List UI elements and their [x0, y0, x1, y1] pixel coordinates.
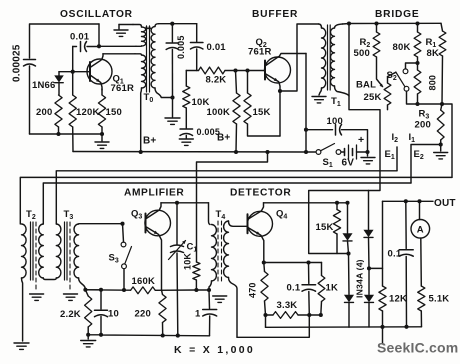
transformer T1 secondary [335, 24, 343, 28]
transformer T2 secondary [39, 224, 44, 278]
node diode D1 top [345, 201, 349, 205]
transistor Q2 761R [265, 57, 291, 83]
wire R2 to BAL wiper [377, 57, 383, 87]
node 470 bottom [263, 313, 267, 317]
switch S3 [123, 224, 124, 242]
svg-text:IN34A (4): IN34A (4) [355, 259, 365, 298]
diode D1 lower 1N34A [348, 254, 351, 295]
diode D2 upper 1N34A [368, 191, 370, 230]
transformer T1 primary [319, 24, 322, 28]
ground T4 core [213, 295, 227, 297]
node bias-15K [245, 68, 249, 72]
svg-text:1K: 1K [326, 283, 339, 294]
node emitter-cap [306, 260, 310, 264]
svg-text:200: 200 [415, 120, 431, 131]
wire detector bottom rail [266, 326, 422, 329]
ground battery [367, 152, 369, 156]
capacitor 0.01 coupling [196, 24, 198, 42]
resistor 470 [263, 263, 266, 272]
node battery ground [365, 150, 369, 154]
wire emitter to T1 primary top [280, 24, 319, 91]
resistor 10K amplifier [193, 262, 200, 280]
svg-text:5.1K: 5.1K [429, 294, 450, 305]
node bias-100K [233, 68, 237, 72]
svg-text:DETECTOR: DETECTOR [230, 188, 291, 199]
svg-text:1N66: 1N66 [32, 80, 56, 91]
potentiometer BAL 25K [384, 83, 391, 105]
node cap10 top [99, 288, 103, 292]
node cap-collector [97, 44, 101, 48]
capacitor 0.1 output [405, 201, 407, 248]
node T4 primary bottom [207, 288, 211, 292]
meter A [419, 201, 421, 219]
capacitor 0.005 bypass [180, 128, 193, 130]
wire to T4 primary [209, 203, 211, 225]
transistor Q1 761R [87, 59, 112, 84]
svg-text:0.1: 0.1 [287, 283, 301, 294]
resistor 10K oscillator [185, 71, 187, 87]
svg-text:10K: 10K [183, 253, 193, 270]
wire Q4 collector [264, 202, 348, 204]
diode 1N66 [58, 72, 60, 76]
ground T1 primary [312, 96, 326, 98]
svg-text:100K: 100K [207, 107, 231, 118]
node 0.005 top [170, 22, 174, 26]
svg-text:BUFFER: BUFFER [252, 9, 298, 20]
resistor R2 500 [376, 24, 378, 33]
capacitor 1 [208, 290, 211, 309]
svg-text:3.3K: 3.3K [277, 300, 298, 311]
battery 6V [341, 151, 345, 153]
diode D2 lower 1N34A [368, 268, 370, 294]
wire to long return [442, 104, 452, 177]
wire amp supply [197, 152, 268, 262]
svg-text:470: 470 [248, 282, 258, 298]
node B+ tap [139, 150, 143, 154]
transformer T4 secondary [224, 221, 229, 278]
capacitor 10 [85, 289, 101, 291]
svg-text:BRIDGE: BRIDGE [375, 9, 419, 20]
node cap3 bottom [404, 325, 408, 329]
transformer T4 core [217, 221, 219, 284]
transformer T0 secondary winding [155, 24, 159, 27]
node Q2 emitter [278, 89, 282, 93]
node S3 bottom [122, 288, 126, 292]
capacitor 0.00025 [24, 59, 36, 61]
svg-text:OSCILLATOR: OSCILLATOR [60, 9, 133, 20]
terminal E1 [396, 147, 398, 171]
svg-text:OUT: OUT [434, 198, 456, 209]
resistor 80K [417, 24, 419, 33]
node bridge mid [440, 102, 444, 106]
stub below 12K [382, 327, 384, 344]
resistor 800 [417, 63, 419, 70]
ground under 150 [101, 134, 103, 141]
resistor R1 8K [441, 23, 443, 31]
transistor Q4 [248, 211, 273, 236]
node C1 bottom [176, 334, 180, 338]
wire Q2 collector down to S1 line [305, 54, 307, 153]
switch S1 [316, 150, 321, 155]
node C1 tap [175, 201, 179, 205]
svg-text:160K: 160K [132, 276, 156, 287]
node 10K bottom [194, 288, 198, 292]
svg-text:2.2K: 2.2K [60, 309, 81, 320]
node T0 secondary bottom [170, 95, 174, 99]
transformer T2 primary [22, 224, 27, 278]
svg-text:8.2K: 8.2K [206, 75, 227, 86]
resistor 2.2K [85, 290, 88, 296]
resistor 160K [85, 289, 130, 291]
node 12K bottom [380, 325, 384, 329]
node S3 tap [120, 222, 124, 226]
node bridge output [367, 266, 371, 270]
svg-text:10: 10 [108, 309, 119, 320]
wire R3 to E2 terminal [411, 145, 441, 184]
wire bias return [265, 315, 267, 327]
wire E2 line to T2 secondary [43, 183, 411, 224]
node 1K bottom [319, 313, 323, 317]
diode D1 upper 1N34A [347, 203, 349, 233]
node T3 sec bottom [83, 288, 87, 292]
svg-text:0.1: 0.1 [388, 249, 402, 260]
switch S2 [403, 69, 408, 74]
node 150 bottom [100, 132, 104, 136]
ground T3 core [64, 293, 78, 295]
resistor 120K [72, 47, 74, 96]
wire 80K to S2 [417, 57, 419, 63]
svg-text:800: 800 [428, 75, 438, 91]
node R3 bottom [439, 142, 443, 146]
variable capacitor C1 [176, 203, 178, 245]
node 200 bottom [56, 132, 60, 136]
node emitter-470 [262, 260, 266, 264]
resistor 150 [101, 89, 103, 95]
wire oscillator bottom [30, 133, 104, 135]
svg-text:6V: 6V [342, 158, 355, 169]
svg-text:SeekIC.com: SeekIC.com [377, 340, 458, 356]
node 80K bottom [415, 61, 419, 65]
node rail 80K [415, 21, 419, 25]
node 800 bottom [415, 102, 419, 106]
svg-text:0.01: 0.01 [207, 42, 227, 53]
ground T2 core [30, 293, 44, 295]
node bridge input [346, 251, 350, 255]
node meter top [417, 199, 421, 203]
svg-text:+: + [358, 134, 364, 146]
svg-text:120K: 120K [76, 107, 100, 118]
wire bridge line to T2 primary [20, 177, 452, 224]
transformer T4 primary [212, 225, 217, 282]
transformer T0 primary upper winding [133, 25, 142, 28]
resistor 8.2K [186, 70, 198, 72]
svg-text:0.005: 0.005 [176, 35, 186, 59]
resistor 220 [162, 290, 163, 295]
node Q2 collector supply [304, 150, 308, 154]
transformer T1 core [327, 25, 329, 90]
wire T1 secondary return down [309, 24, 380, 254]
node 15K top [335, 201, 339, 205]
resistor 12K [379, 286, 386, 311]
resistor 1K [321, 263, 323, 276]
svg-text:BAL: BAL [356, 80, 376, 91]
node cap10 bottom [99, 333, 103, 337]
ground at T0 primary top [119, 24, 133, 26]
wire to T0 feedback winding [99, 45, 136, 47]
node cap 0.1 bottom [307, 313, 311, 317]
svg-text:0.00025: 0.00025 [12, 44, 23, 82]
svg-text:15K: 15K [253, 107, 271, 118]
wire bridge out to 12K [369, 267, 383, 269]
svg-text:B+: B+ [217, 133, 230, 144]
ground below 0.005 [172, 98, 174, 118]
transformer T3 primary [56, 224, 61, 278]
svg-text:1: 1 [195, 309, 201, 320]
resistor R3 200 [441, 104, 442, 110]
wire Q3 collector [161, 202, 209, 204]
capacitor 0.005 tank [171, 24, 173, 42]
wire Q4 emitter [264, 262, 322, 264]
resistor 100K [236, 71, 237, 94]
wire T0 primary bottom to B+ node [140, 88, 143, 152]
svg-text:K = X 1,000: K = X 1,000 [174, 344, 255, 356]
ground 2.2K [87, 335, 89, 339]
capacitor 0.1 detector [308, 263, 310, 284]
wire B+ supply line [73, 151, 316, 154]
svg-text:25K: 25K [364, 92, 382, 103]
resistor 200 [55, 95, 62, 127]
transformer T0 primary lower winding [135, 54, 142, 55]
wire base network [59, 71, 90, 73]
svg-text:15K: 15K [316, 222, 334, 233]
node rail R2 [374, 21, 378, 25]
svg-text:761R: 761R [248, 47, 272, 58]
svg-text:12K: 12K [389, 294, 407, 305]
wire T4 return [237, 315, 309, 337]
ground below 0.005 bypass [179, 138, 193, 140]
node base-120K [71, 70, 75, 74]
svg-text:B+: B+ [143, 136, 156, 147]
svg-text:AMPLIFIER: AMPLIFIER [124, 188, 184, 199]
wire top-left rail [30, 24, 100, 58]
wire bottom amp [88, 335, 209, 336]
svg-text:150: 150 [106, 107, 122, 118]
wire bias to Q2 base [225, 70, 265, 72]
wire top rail T0 secondary [159, 23, 197, 25]
transformer T2 core [30, 222, 32, 280]
node cap out [404, 199, 408, 203]
resistor 15K buffer [247, 71, 249, 94]
node rail T1 [347, 21, 351, 25]
wire 25K bottom [387, 105, 389, 110]
resistor 3.3K [266, 314, 274, 316]
svg-text:500: 500 [354, 48, 370, 59]
transformer T3 core [64, 222, 66, 280]
node amp feed tap [265, 150, 269, 154]
svg-text:761R: 761R [111, 83, 135, 94]
resistor 15K detector [336, 203, 338, 210]
node S1 junction [304, 128, 308, 132]
transistor Q3 [145, 210, 171, 236]
transformer T0 core [146, 26, 148, 92]
wire Q1 collector to T0 [103, 53, 135, 55]
resistor 5.1K [418, 286, 425, 311]
node 220 bottom [161, 333, 165, 337]
svg-text:8K: 8K [427, 48, 440, 59]
svg-text:220: 220 [135, 309, 151, 320]
transformer T3 secondary [74, 224, 79, 278]
svg-text:80K: 80K [393, 42, 411, 53]
ground T2 primary [14, 342, 29, 344]
svg-text:A: A [417, 225, 424, 236]
wire E1 line to T3 primary [56, 171, 397, 224]
wire output rail [383, 200, 434, 202]
wire top rail bridge [343, 22, 442, 25]
node 100K bottom B+ [234, 150, 238, 154]
node 2.2K bottom [86, 333, 90, 337]
svg-text:200: 200 [36, 107, 52, 118]
ground R3 [440, 145, 442, 152]
